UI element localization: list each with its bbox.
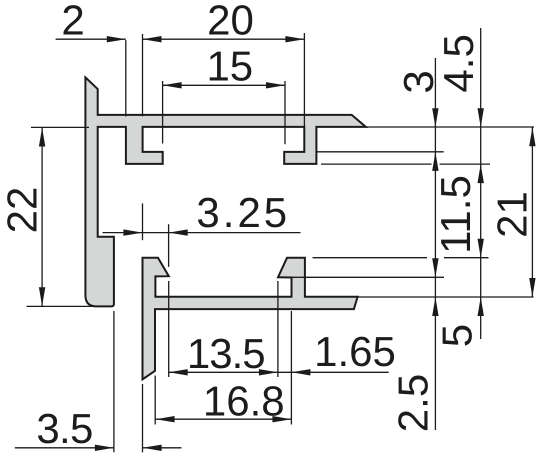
extension line x=155.2 bbox=[154, 376, 156, 425]
upper aluminum profile cross-section bbox=[85, 77, 365, 306]
dimension 5 bottom arrow bbox=[478, 297, 484, 316]
svg-text:2.5: 2.5 bbox=[390, 374, 437, 432]
dimension 3.25 (lower tab width) bbox=[103, 232, 301, 234]
dimension 3.5 (gap between profiles) bbox=[15, 447, 114, 449]
extension line y=151.8 (foot top) bbox=[317, 151, 444, 153]
extension line y=127.4 bbox=[31, 126, 89, 128]
dimension 2 (hook wall thickness) bbox=[56, 38, 126, 40]
dimension 3 and 2.5 shared dim line x=435.4 bbox=[434, 58, 436, 430]
dimension 3 arrows bbox=[432, 108, 438, 127]
extension line y=306.4 bbox=[27, 305, 95, 307]
dimension 13.5 and 1.65 dim line bbox=[169, 371, 389, 373]
extension line x=142.5 bbox=[142, 34, 144, 116]
dimension 20 (between hook walls) bbox=[143, 38, 305, 40]
extension line x=113.9 bbox=[113, 311, 115, 452]
svg-text:21: 21 bbox=[488, 191, 535, 238]
dimension 21 (overall between flanges) bbox=[531, 127, 533, 297]
extension line x=168.7 (tab chamfer) bbox=[168, 281, 170, 377]
extension line x=125.8 bbox=[125, 40, 127, 116]
extension line y=277.3 (tab notch) bbox=[281, 276, 444, 278]
svg-text:2: 2 bbox=[61, 0, 84, 44]
extension line y=127 (flange bottom) bbox=[366, 126, 534, 128]
dimension 4.5 arrows bbox=[478, 108, 484, 127]
extension line x=277.9 (tab chamfer) bbox=[277, 281, 279, 377]
extension line x=142.5 bbox=[142, 203, 144, 240]
lower aluminum profile cross-section bbox=[143, 258, 358, 380]
extension line y=257.7 (tab top) bbox=[313, 257, 428, 259]
svg-text:15: 15 bbox=[206, 43, 253, 90]
svg-text:11.5: 11.5 bbox=[432, 175, 479, 254]
extension line x=291.4 bbox=[290, 311, 292, 425]
svg-text:13.5: 13.5 bbox=[187, 330, 265, 377]
svg-text:5: 5 bbox=[434, 324, 481, 347]
extension line x=142.5 bbox=[142, 384, 144, 452]
extension line y=164.1 (hook bottom) bbox=[321, 163, 432, 165]
dimension 2.5 arrows bbox=[432, 258, 438, 277]
svg-text:20: 20 bbox=[207, 0, 254, 44]
svg-text:1.65: 1.65 bbox=[314, 328, 396, 375]
extension line y=297 (lower flange top) bbox=[358, 296, 534, 298]
svg-text:3.25: 3.25 bbox=[196, 189, 290, 236]
svg-text:3.5: 3.5 bbox=[36, 405, 92, 452]
extension line x=304.4 bbox=[303, 33, 305, 127]
svg-text:16.8: 16.8 bbox=[203, 378, 285, 425]
dimension 16.8 (channel inner width) bbox=[156, 418, 292, 420]
dimension 11.5 bottom arrow bbox=[478, 239, 484, 258]
extension line x=162.6 bbox=[162, 81, 164, 144]
extension line x=285.0 bbox=[284, 81, 286, 144]
dimension 1.65 right arrow bbox=[291, 369, 310, 375]
dimension 22 (profile height) bbox=[41, 128, 43, 307]
svg-text:22: 22 bbox=[0, 187, 45, 234]
dimension 4.5 / 11.5 / 5 shared dim line x=480.7 bbox=[480, 28, 482, 339]
extension line x=168.6 bbox=[168, 224, 170, 267]
svg-text:4.5: 4.5 bbox=[435, 34, 482, 92]
dimension 15 (between hook feet) bbox=[163, 84, 285, 86]
